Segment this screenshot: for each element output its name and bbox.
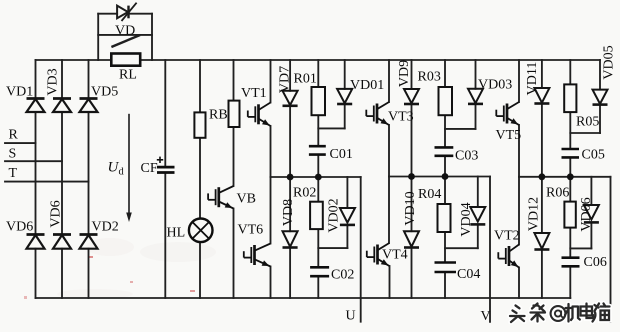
node rail U at C01 column	[315, 174, 322, 181]
resistor R03	[439, 87, 453, 115]
capacitor C01	[309, 146, 326, 154]
wire C04 to bottom bus	[444, 272, 446, 298]
svg-text:VD05: VD05	[602, 45, 617, 79]
wire R05 column top	[569, 60, 571, 84]
svg-text:VT2: VT2	[494, 229, 520, 244]
svg-text:VD1: VD1	[6, 85, 33, 100]
capacitor C03	[435, 147, 454, 155]
capacitor CF electrolytic	[157, 157, 175, 173]
transistor VT2	[498, 245, 519, 268]
diode VD02	[340, 208, 355, 225]
diode VD5	[80, 99, 98, 113]
wire joint R02-VD02	[318, 247, 347, 249]
wire VD9 to mid rail	[411, 104, 413, 177]
wire VD1-VD6 column middle	[35, 112, 37, 234]
character dian	[581, 304, 594, 319]
wire R02 bottom to C02	[317, 229, 319, 267]
diode VD05	[593, 90, 608, 105]
svg-text:d: d	[119, 167, 125, 178]
wire top DC bus right segment	[140, 59, 600, 61]
svg-text:VD7: VD7	[278, 66, 293, 93]
transistor VT3	[366, 102, 389, 125]
diode VD06	[584, 205, 599, 222]
transistor VT4	[367, 243, 390, 266]
svg-text:R04: R04	[418, 187, 441, 202]
diode VD1	[27, 99, 45, 113]
wire joint R01-VD01	[318, 127, 344, 129]
svg-text:C04: C04	[457, 267, 480, 282]
wire joint R03-VD03	[445, 128, 476, 130]
transistor VT6	[244, 244, 271, 267]
wire VD01 bottom to joint	[344, 104, 346, 128]
node rail V at VD9 column	[408, 173, 415, 180]
wire VD10 to bottom bus	[411, 248, 413, 299]
wire VT3 collector	[388, 60, 390, 102]
svg-text:T: T	[9, 166, 18, 181]
character tou	[510, 306, 525, 323]
wire rail to R06	[569, 177, 571, 202]
wire VD06 bottom to joint	[590, 222, 592, 248]
diode VD01	[337, 89, 352, 104]
svg-text:R: R	[9, 128, 19, 143]
wire W output tap	[610, 177, 612, 322]
wire ballast resistor column top	[199, 60, 201, 112]
resistor RB	[229, 101, 240, 127]
faint artifact smudges	[24, 238, 216, 299]
diode VD03	[468, 89, 483, 104]
wire VD11 to mid rail	[541, 104, 543, 177]
wire VT2 collector from rail	[518, 177, 520, 245]
diode VD3	[53, 99, 71, 113]
wire VD05 bottom to joint	[599, 105, 601, 133]
svg-text:VT1: VT1	[241, 86, 267, 101]
character ji	[565, 304, 580, 322]
svg-text:VD3: VD3	[46, 68, 61, 95]
wire V output tap	[489, 177, 491, 322]
svg-text:HL: HL	[167, 226, 186, 241]
wire VT4 collector from rail	[388, 177, 390, 244]
svg-text:VD6: VD6	[49, 200, 64, 227]
wire lamp HL to bottom bus	[199, 242, 201, 298]
svg-text:VT4: VT4	[382, 248, 408, 263]
svg-text:CF: CF	[141, 161, 158, 176]
svg-text:VD8: VD8	[281, 199, 296, 226]
svg-text:VB: VB	[237, 192, 256, 207]
wire switch branch	[98, 34, 152, 36]
svg-text:R03: R03	[418, 70, 441, 85]
wire VT1 collector	[270, 60, 272, 103]
svg-text:VD02: VD02	[327, 198, 342, 232]
diode VD11	[534, 88, 549, 104]
diode VD9	[404, 89, 419, 104]
capacitor C05	[562, 149, 580, 157]
wire VD03 bottom to joint	[475, 104, 477, 129]
wire VB emitter to bottom bus	[233, 209, 235, 299]
svg-text:VD2: VD2	[92, 220, 119, 235]
wire VT4 emitter to bottom bus	[389, 266, 391, 298]
wire VT6 collector from rail	[270, 177, 272, 244]
wire VD5-VD2 column middle	[88, 112, 90, 234]
wire phase S input line	[5, 160, 62, 162]
svg-text:C01: C01	[330, 147, 353, 162]
wire R04 bottom to C04	[444, 232, 446, 262]
character mao	[593, 304, 610, 322]
wire C01 to mid rail	[317, 155, 319, 177]
svg-text:VD04: VD04	[459, 202, 474, 236]
resistor R06	[564, 202, 575, 228]
svg-text:R02: R02	[293, 186, 316, 201]
wire VD01 column top	[344, 60, 346, 89]
wire VT2 emitter to bottom bus	[518, 268, 520, 299]
svg-text:VD01: VD01	[350, 78, 384, 93]
wire C06 to bottom bus	[569, 266, 571, 298]
node rail W at C05 column	[567, 173, 574, 180]
wire VD7 column top	[289, 60, 291, 91]
annotation Ud arrow	[126, 114, 132, 222]
wire mid rail W phase	[519, 176, 611, 178]
wire R05 bottom to C05	[569, 112, 571, 149]
wire top DC bus left segment	[36, 59, 112, 61]
wire RB column top	[233, 60, 235, 101]
wire R03 column top	[444, 60, 446, 87]
watermark 头条 @机电猫 (drawn strokes with white casing)	[510, 304, 610, 323]
svg-text:VD03: VD03	[478, 78, 512, 93]
diode VD12	[534, 233, 549, 250]
wire rail to VD06	[590, 177, 592, 205]
resistor R05	[564, 84, 576, 112]
svg-text:C06: C06	[584, 255, 607, 270]
resistor R01	[312, 87, 326, 115]
diode VD4 (labelled VD6)	[53, 235, 71, 249]
svg-text:C02: C02	[331, 268, 354, 283]
node rail U at VD7 column	[287, 174, 294, 181]
wire VT1 emitter to mid rail U	[270, 126, 272, 177]
wire CF column bottom	[164, 173, 166, 299]
resistor (ballast above HL)	[194, 112, 205, 137]
svg-text:S: S	[9, 147, 17, 162]
wire VD12 to bottom bus	[541, 250, 543, 299]
transistor VT1	[248, 103, 271, 127]
wire VD04 bottom to joint	[477, 224, 479, 248]
wire VD3 column top	[61, 60, 63, 99]
wire mid rail V phase	[389, 176, 490, 178]
wire VT5 emitter to mid rail W	[518, 125, 520, 177]
svg-text:VD12: VD12	[527, 197, 542, 231]
svg-text:U: U	[346, 309, 356, 324]
svg-text:V: V	[481, 309, 491, 324]
diode VD2	[80, 235, 98, 249]
lamp HL	[189, 219, 213, 243]
capacitor C04	[435, 263, 457, 273]
svg-text:VT3: VT3	[388, 110, 414, 125]
character tiao	[531, 304, 546, 322]
wire rail to VD04	[477, 177, 479, 208]
wire R06 bottom to C06	[569, 228, 571, 258]
wire rail to VD8	[289, 177, 291, 231]
wire VD02 bottom to joint	[346, 225, 348, 248]
wire mid rail U phase	[271, 176, 361, 178]
svg-text:VD10: VD10	[403, 191, 418, 225]
wire VT6 emitter to bottom bus	[270, 267, 272, 299]
wire R03 bottom to C03	[444, 115, 446, 147]
wire C02 to bottom bus	[317, 276, 319, 298]
wire rail to VD10	[411, 177, 413, 232]
wire C03 to mid rail	[444, 156, 446, 177]
wire resistor to lamp HL	[199, 138, 201, 219]
diode VD6	[27, 235, 45, 249]
diode VD (bypass diode with strike)	[117, 3, 137, 21]
wire VT3 emitter to mid rail V	[388, 125, 390, 177]
wire joint R04-VD04	[445, 247, 478, 249]
svg-text:VD5: VD5	[91, 85, 118, 100]
node rail V at C03 column	[442, 173, 449, 180]
wire joint R05-VD05	[570, 132, 600, 134]
svg-text:VD6: VD6	[6, 220, 33, 235]
wire R01 bottom to C01	[317, 115, 319, 146]
wire C05 to mid rail	[569, 157, 571, 176]
wire VT5 collector	[518, 60, 520, 102]
svg-text:VD06: VD06	[579, 197, 594, 231]
diode VD04	[470, 207, 485, 224]
diode VD8	[283, 231, 298, 247]
transistor VT5	[496, 102, 519, 125]
wire rail to R04	[444, 177, 446, 205]
wire U output tap	[360, 177, 362, 322]
wire VD8 to bottom bus	[289, 248, 291, 299]
wire precharge top branch left	[98, 13, 117, 15]
svg-text:VD9: VD9	[397, 60, 412, 87]
transistor VB	[208, 186, 233, 209]
resistor R04	[438, 204, 451, 232]
wire R01 column top	[317, 60, 319, 87]
wire phase T input line	[5, 181, 89, 183]
svg-text:RB: RB	[209, 108, 228, 123]
diode VD7	[283, 91, 298, 106]
wire RB to VB collector	[233, 127, 235, 186]
wire precharge top branch right	[129, 13, 152, 15]
wire VD2 column bottom	[88, 249, 90, 298]
node rail W at VD11 column	[539, 173, 546, 180]
wire bottom DC bus	[36, 297, 571, 299]
wire VD9 column top	[411, 60, 413, 89]
svg-text:VD11: VD11	[525, 62, 540, 96]
wire precharge left vertical	[97, 14, 99, 60]
svg-text:R06: R06	[546, 186, 569, 201]
wire VD7 to mid rail	[289, 106, 291, 177]
wire rail to R02	[317, 177, 319, 202]
wire VD3-VD4 column middle	[61, 112, 63, 234]
svg-text:C05: C05	[582, 148, 605, 163]
capacitor C02	[310, 267, 329, 276]
svg-text:R05: R05	[576, 115, 599, 130]
wire rail to VD02	[346, 177, 348, 208]
svg-text:VT6: VT6	[238, 223, 264, 238]
svg-text:RL: RL	[119, 68, 137, 83]
svg-text:VD: VD	[115, 24, 135, 39]
wire VD5 column top	[88, 60, 90, 99]
wire VD4 column bottom	[61, 249, 63, 298]
svg-text:R01: R01	[294, 72, 317, 87]
wire VD11 column top	[541, 60, 543, 88]
resistor R02	[310, 202, 323, 229]
capacitor C06	[562, 258, 580, 267]
wire phase R input line	[5, 142, 36, 144]
wire CF column top	[164, 60, 166, 167]
wire joint R06-VD06	[570, 247, 591, 249]
diode VD10	[404, 231, 419, 247]
svg-text:VT5: VT5	[496, 128, 522, 143]
wire VD6 column bottom	[35, 249, 37, 298]
wire VD1 column top	[35, 60, 37, 99]
wire VD03 column top	[475, 60, 477, 89]
wire rail to VD12	[541, 177, 543, 233]
watermark at-sign	[551, 306, 566, 321]
resistor RL	[111, 54, 140, 66]
wire precharge right vertical	[151, 14, 153, 60]
wire VD05 column top	[599, 60, 601, 90]
switch blade of bypass contact	[113, 36, 140, 47]
svg-text:C03: C03	[455, 149, 478, 164]
